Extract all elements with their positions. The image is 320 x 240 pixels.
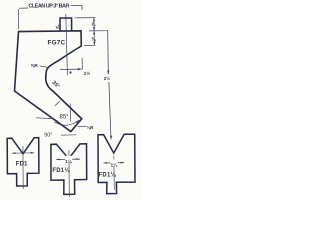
svg-text:⅞: ⅞ — [55, 25, 61, 30]
svg-text:⅝R: ⅝R — [31, 63, 39, 68]
svg-text:¾: ¾ — [91, 36, 96, 43]
svg-text:1¼: 1¼ — [111, 161, 119, 168]
svg-text:⅛R: ⅛R — [87, 125, 95, 130]
svg-text:CLEAN UP 3° BAR: CLEAN UP 3° BAR — [28, 4, 69, 10]
svg-text:FG7C: FG7C — [48, 39, 66, 46]
svg-text:35°: 35° — [51, 80, 61, 90]
svg-text:FD1¼: FD1¼ — [99, 171, 117, 178]
svg-text:2½: 2½ — [84, 70, 91, 76]
svg-text:FD1: FD1 — [16, 160, 28, 167]
svg-text:⅞: ⅞ — [91, 22, 96, 28]
svg-text:2½: 2½ — [104, 76, 110, 81]
svg-text:85°: 85° — [60, 114, 70, 120]
svg-text:FD1⅛: FD1⅛ — [52, 168, 70, 174]
svg-text:1⅛: 1⅛ — [65, 159, 73, 165]
svg-text:90°: 90° — [44, 133, 52, 139]
